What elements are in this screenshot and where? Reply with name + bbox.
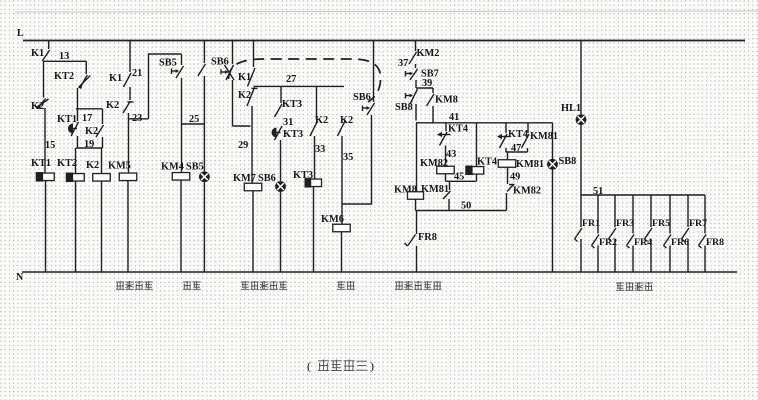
label FR3	[616, 218, 634, 229]
svg-text:(: (	[307, 359, 311, 373]
wire node 25 horizontal	[182, 123, 205, 125]
contact FR8 thermal	[699, 235, 707, 249]
button SB5	[172, 66, 184, 78]
contact KT1 delayed (17)	[68, 122, 79, 136]
label KT1	[57, 114, 77, 125]
svg-text:KT4: KT4	[477, 157, 497, 168]
wire 50 to FR8 contact	[416, 211, 418, 235]
label KT4	[508, 129, 528, 140]
contact FR2 thermal	[592, 235, 600, 249]
svg-text:50: 50	[461, 201, 471, 212]
wire KT3 coil to N	[313, 187, 315, 273]
svg-text:KM7: KM7	[233, 173, 256, 184]
label KM81	[530, 131, 558, 142]
wire node 17 horizontal	[76, 108, 103, 110]
wire KM4 coil to N	[180, 180, 182, 272]
contact KT3 (31)	[275, 104, 283, 117]
label SB6	[211, 57, 229, 68]
wire SB8 lamp to N	[552, 170, 554, 272]
wire SB5 lamp to N	[203, 182, 205, 272]
wire bus drop rung27	[253, 41, 255, 68]
wire FR7 upper	[687, 195, 689, 227]
wire KM82 contact to 50 corner	[506, 193, 508, 211]
wire FR4 upper	[632, 195, 634, 234]
label FR5	[652, 218, 670, 229]
wire bus drop KM2	[415, 41, 417, 52]
label SB5 lamp	[186, 162, 204, 173]
wire 25 to SB5 lamp	[203, 124, 205, 171]
svg-text:FR8: FR8	[706, 237, 724, 248]
svg-text:KT2: KT2	[54, 71, 74, 82]
svg-text:KM5: KM5	[108, 161, 131, 172]
svg-text:L: L	[17, 28, 24, 39]
wire K2 branch lower	[102, 137, 104, 148]
wire L top bus	[23, 40, 745, 42]
label KM5 coil	[108, 161, 131, 172]
label 13	[59, 51, 69, 62]
label SB7	[421, 69, 439, 80]
wire FR3 upper	[614, 195, 616, 227]
label K2	[315, 115, 328, 126]
wire bus drop contact 25R	[203, 41, 205, 64]
caption fen-chen-ya-shi-qi (dust compactor)	[241, 281, 287, 289]
contact K2 (15 branch)	[36, 99, 49, 109]
label FR4	[634, 237, 652, 248]
label 43	[446, 149, 456, 160]
wire FR3 to N	[614, 239, 616, 272]
label KM82	[513, 186, 541, 197]
wire FR1 upper	[580, 195, 582, 227]
label FR7	[689, 218, 707, 229]
svg-text:K2: K2	[315, 115, 328, 126]
wire FR7 to N	[687, 239, 689, 272]
contact FR4 thermal	[627, 235, 635, 249]
wire SB5 top stub	[181, 54, 183, 65]
label K2	[31, 101, 44, 112]
contact KM81 (45->50)	[443, 191, 451, 199]
contact KT2 delayed (13->17)	[78, 75, 91, 89]
label 33	[315, 144, 325, 155]
label K2	[106, 100, 119, 111]
svg-text:37: 37	[398, 58, 408, 69]
wire down to K2 contact	[43, 61, 45, 97]
contact FR6 thermal	[664, 235, 672, 249]
svg-text:FR5: FR5	[652, 218, 670, 229]
node N label	[16, 272, 24, 283]
wire 41 drop KT4 coil	[476, 123, 478, 167]
wire 41 to KM8 coil	[416, 123, 418, 192]
wire SB6b to KM6 node	[343, 115, 372, 204]
label 19	[84, 139, 94, 150]
svg-text:15: 15	[45, 140, 55, 151]
label HL1	[561, 103, 581, 114]
wire 19 down to KT2 coil	[75, 148, 77, 174]
label KM7 coil	[233, 173, 256, 184]
label K2	[85, 126, 98, 137]
label 31	[283, 117, 293, 128]
wire bus drop rung2	[129, 41, 131, 73]
label 49	[510, 172, 520, 183]
coil K2	[93, 174, 111, 182]
contact KM82 (49->50)	[507, 185, 515, 192]
wire node 41 horizontal	[416, 122, 553, 124]
contact KM8 seal-in	[427, 94, 435, 106]
label FR6	[671, 237, 689, 248]
wire KM8 branch rejoin	[432, 106, 434, 123]
contact parallel of SB5	[198, 64, 206, 76]
svg-text:KT1: KT1	[57, 114, 77, 125]
svg-text:29: 29	[238, 140, 248, 151]
wire 47 to KM81 coil	[507, 152, 509, 160]
svg-text:KM81: KM81	[516, 159, 544, 170]
coil KT3	[305, 178, 322, 188]
label K2	[340, 115, 353, 126]
label KM6 coil	[321, 214, 344, 225]
wire 37 to SB7	[415, 64, 417, 68]
label KM2	[417, 48, 440, 59]
wire SB5 to node 25	[181, 78, 183, 124]
label 41	[449, 112, 459, 123]
contact FR3 thermal	[609, 228, 617, 242]
wire FR4 to N	[632, 246, 634, 273]
wire 41 to SB8 lamp	[552, 123, 554, 159]
wire node 27 horizontal	[254, 85, 345, 87]
lamp SB8	[547, 159, 558, 170]
svg-text:KT3: KT3	[282, 99, 302, 110]
label SB6	[353, 92, 371, 103]
svg-text:K2: K2	[238, 90, 251, 101]
label KT1 coil	[31, 158, 51, 169]
wire KT2 contact to node 17	[77, 88, 79, 109]
svg-text:KT1: KT1	[31, 158, 51, 169]
wire 25 to KM4 coil	[181, 124, 183, 173]
contact KM2 (37)	[409, 52, 417, 64]
wire node 51 horizontal	[581, 194, 705, 196]
coil KT1	[36, 172, 55, 182]
wire FR5 upper	[650, 195, 652, 227]
svg-text:27: 27	[286, 74, 296, 85]
caption zhu-feng-ji-yun-xing (main fan running)	[395, 281, 441, 289]
svg-text:HL1: HL1	[561, 103, 581, 114]
wire 35 down	[341, 136, 343, 224]
label KT4	[448, 124, 468, 135]
wire bus drop SB6b	[373, 41, 375, 103]
svg-text:13: 13	[59, 51, 69, 62]
label 21	[132, 68, 142, 79]
wire KM8 branch upper	[432, 88, 434, 93]
wire 41 drop KM81-47	[527, 123, 529, 133]
wire 39 vertical	[415, 80, 417, 88]
wire 23 riser to SB5	[149, 54, 182, 119]
label 39	[422, 78, 432, 89]
svg-text:N: N	[16, 272, 24, 283]
svg-text:31: 31	[283, 117, 293, 128]
wire FR6 to N	[669, 246, 671, 273]
label KT4 coil	[477, 157, 497, 168]
wire KM7 coil to N	[252, 191, 254, 272]
svg-text:41: 41	[449, 112, 459, 123]
wire KT1 branch upper	[77, 109, 79, 121]
wire K2 coil to N	[101, 181, 103, 272]
button SB6 second	[363, 103, 375, 115]
wire 23 down to KM5 coil	[128, 113, 130, 173]
node L label	[17, 28, 24, 39]
wire HL1 to node 51	[580, 125, 582, 195]
wire 43 down to KM82 coil	[445, 146, 447, 167]
label K1	[31, 48, 44, 59]
svg-text:KM82: KM82	[513, 186, 541, 197]
label K1	[238, 72, 251, 83]
contact K1 (21)	[124, 73, 132, 87]
svg-text:KM2: KM2	[417, 48, 440, 59]
contact FR7 thermal	[682, 228, 690, 242]
wire 29 down	[251, 106, 253, 183]
svg-text:SB6: SB6	[211, 57, 229, 68]
wire node 39 branch	[416, 87, 433, 89]
lamp HL1	[576, 114, 587, 125]
contact KT3 delayed	[272, 126, 283, 140]
button SB8	[406, 89, 418, 104]
wire FR6 upper	[669, 195, 671, 234]
svg-text:K2: K2	[340, 115, 353, 126]
wire KM81 contact to 50	[448, 199, 450, 211]
svg-text:45: 45	[454, 172, 464, 183]
wire between 21 and 23	[129, 87, 131, 100]
label 37	[398, 58, 408, 69]
label FR8	[418, 232, 437, 243]
label KM81 coil	[516, 159, 544, 170]
wire node 45 horizontal	[446, 180, 477, 182]
svg-text:KM81: KM81	[530, 131, 558, 142]
wire FR8 upper	[704, 195, 706, 234]
label 17	[82, 113, 92, 124]
wire 27 drop KT3	[280, 86, 282, 103]
contact FR1 thermal	[575, 228, 583, 242]
contact KT4 delayed (47)	[497, 134, 511, 148]
svg-text:): )	[370, 359, 374, 373]
svg-text:KM4: KM4	[161, 162, 184, 173]
svg-text:21: 21	[132, 68, 142, 79]
contact K1 (13)	[42, 50, 50, 61]
wire bus drop HL1	[580, 41, 582, 115]
wire SB6 lamp to N	[280, 192, 282, 272]
label FR8	[706, 237, 724, 248]
wire node 23 branch right	[129, 118, 149, 120]
svg-text:K2: K2	[31, 101, 44, 112]
label 29	[238, 140, 248, 151]
wire FR1 to N	[580, 239, 582, 272]
wire 41 drop KT4-47	[505, 123, 507, 133]
caption shua-long (brush cage)	[337, 281, 355, 289]
wire FR2 to N	[597, 246, 599, 273]
svg-text:SB8: SB8	[559, 156, 577, 167]
label KT2	[54, 71, 74, 82]
contact K1 (27)	[248, 68, 256, 86]
wire KT4 coil to 45	[476, 174, 478, 181]
label KM8	[435, 95, 458, 106]
wire FR8 to N	[704, 246, 706, 273]
svg-text:SB6: SB6	[258, 173, 276, 184]
wire KM82 coil to 45	[445, 174, 447, 182]
caption ji-chen-feng-ji (dust collecting fan)	[116, 281, 153, 289]
wire K2 branch upper	[102, 109, 104, 124]
annotation dashed loop	[229, 59, 381, 102]
wire 25R lower	[203, 76, 205, 124]
coil KT4	[465, 166, 484, 176]
contact KM81 parallel (47)	[522, 134, 530, 148]
caption gu-zhang-bao-jing (fault alarm)	[616, 282, 653, 290]
contact K2 (33)	[310, 121, 318, 136]
label 25	[189, 114, 199, 125]
scan streak (decorative)	[14, 11, 758, 12]
wire 33 down to KT3 coil	[314, 136, 316, 179]
svg-text:K2: K2	[86, 160, 99, 171]
wire SB8 lower	[415, 104, 417, 121]
label 15	[45, 140, 55, 151]
wire KM81 coil to KM82 contact	[507, 167, 509, 184]
label KM4 coil	[161, 162, 184, 173]
svg-text:SB8: SB8	[395, 102, 413, 113]
contact K2 (29)	[247, 87, 258, 106]
wire bus drop SB6	[232, 41, 234, 65]
wire KM5 coil to N	[127, 181, 129, 273]
svg-text:KT3: KT3	[283, 129, 303, 140]
label KT3	[282, 99, 302, 110]
wire KT2 coil to N	[75, 181, 77, 272]
svg-text:FR3: FR3	[616, 218, 634, 229]
coil KM8	[408, 192, 424, 200]
contact K2 (23)	[123, 101, 134, 113]
svg-text:K1: K1	[31, 48, 44, 59]
lamp SB6	[275, 181, 286, 192]
contact K2 (35)	[338, 121, 346, 136]
svg-text:K1: K1	[238, 72, 251, 83]
coil KM5	[119, 173, 137, 181]
wire SB6 lower	[232, 80, 234, 126]
lamp SB5	[199, 171, 210, 182]
label KT3 coil	[293, 170, 313, 181]
wire KT1 branch lower	[77, 136, 79, 148]
wire KM6 coil to N	[341, 232, 343, 272]
wire node 13 horizontal	[43, 60, 86, 62]
caption duo-cao	[183, 281, 201, 289]
svg-text:25: 25	[189, 114, 199, 125]
coil KT2	[66, 173, 85, 183]
wire KT1 coil to N	[45, 181, 47, 273]
svg-text:33: 33	[315, 144, 325, 155]
wire KM8 coil to 50 line	[415, 199, 417, 210]
label 23	[132, 113, 142, 124]
wire bus drop to K1 contact	[48, 41, 50, 50]
contact K2 (19)	[96, 125, 104, 137]
wire FR2 upper	[597, 195, 599, 234]
wire node 29 horizontal	[233, 125, 251, 127]
wire KT3 to SB6 lamp	[280, 140, 282, 181]
svg-text:KT2: KT2	[57, 158, 77, 169]
label SB8 lamp	[559, 156, 577, 167]
coil KM7	[244, 183, 262, 191]
label 51	[593, 186, 603, 197]
label KM82 coil	[420, 158, 448, 169]
label K2 coil	[86, 160, 99, 171]
label SB5	[159, 58, 177, 69]
svg-text:K2: K2	[85, 126, 98, 137]
label SB8	[395, 102, 413, 113]
label FR2	[599, 237, 617, 248]
label SB6 lamp	[258, 173, 276, 184]
svg-text:KM81: KM81	[421, 184, 449, 195]
svg-text:K1: K1	[109, 73, 122, 84]
svg-text:49: 49	[510, 172, 520, 183]
label KT2 coil	[57, 158, 77, 169]
coil KM81	[498, 160, 516, 168]
svg-text:35: 35	[343, 152, 353, 163]
wire node 47 merge	[506, 148, 528, 152]
label 27	[286, 74, 296, 85]
svg-text:KM8: KM8	[435, 95, 458, 106]
svg-text:KT4: KT4	[448, 124, 468, 135]
label K2	[238, 90, 251, 101]
svg-text:FR6: FR6	[671, 237, 689, 248]
contact FR8 thermal	[405, 235, 416, 247]
label 47	[511, 143, 521, 154]
label 45	[454, 172, 464, 183]
label KM8 coil	[394, 185, 417, 196]
wire KT2 branch drop	[85, 61, 87, 74]
label 50	[461, 201, 471, 212]
wire 27 drop K2-33	[316, 86, 318, 120]
svg-text:K2: K2	[106, 100, 119, 111]
wire 15 down to KT1 coil	[44, 108, 46, 173]
wire 45 to KM81 contact	[449, 181, 451, 190]
wire N bottom bus	[22, 271, 737, 273]
wire node 50 horizontal	[416, 210, 507, 212]
contact KT4 delayed (43)	[437, 132, 451, 146]
svg-text:FR4: FR4	[634, 237, 652, 248]
label 35	[343, 152, 353, 163]
label KT3	[283, 129, 303, 140]
svg-text:SB5: SB5	[186, 162, 204, 173]
wire 41 drop KT4-43	[445, 123, 447, 131]
contact FR5 thermal	[645, 228, 653, 242]
wire FR5 to N	[650, 239, 652, 272]
button SB6	[221, 65, 234, 80]
coil KM6	[333, 224, 351, 232]
svg-text:17: 17	[82, 113, 92, 124]
svg-text:KT4: KT4	[508, 129, 528, 140]
svg-text:SB5: SB5	[159, 58, 177, 69]
svg-text:FR8: FR8	[418, 232, 437, 243]
svg-text:47: 47	[511, 143, 521, 154]
caption paren right	[370, 359, 374, 373]
coil KM4	[172, 173, 190, 181]
caption paren left	[307, 359, 311, 373]
wire FR8 to N	[416, 246, 418, 272]
label KM81	[421, 184, 449, 195]
svg-text:KM6: KM6	[321, 214, 344, 225]
label FR1	[582, 218, 600, 229]
caption dian-lu-tu-san (circuit diagram 3)	[318, 360, 367, 371]
label K1	[109, 73, 122, 84]
svg-text:19: 19	[84, 139, 94, 150]
button SB7	[406, 69, 418, 80]
coil KM82	[437, 166, 455, 174]
wire node 19 horizontal	[76, 147, 103, 149]
wire 19 down to K2 coil	[101, 148, 103, 174]
